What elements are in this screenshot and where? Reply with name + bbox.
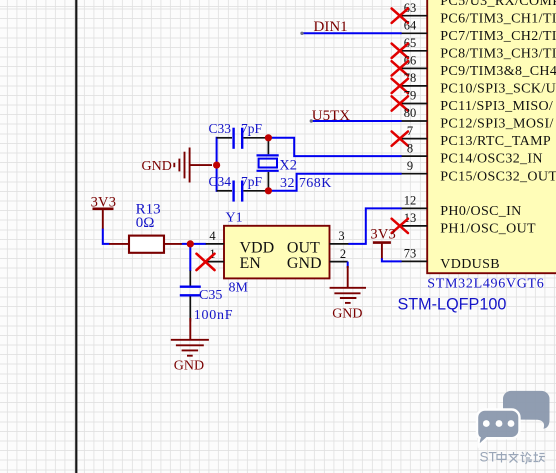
svg-text:GND: GND — [174, 359, 204, 374]
svg-text:PC6/TIM3_CH1/TI: PC6/TIM3_CH1/TI — [440, 11, 556, 26]
wire R13 to Y1 VDD — [182, 243, 206, 245]
svg-text:PH0/OSC_IN: PH0/OSC_IN — [440, 204, 521, 219]
svg-text:32.768K: 32.768K — [280, 176, 332, 191]
Y1 pin 1 EN — [204, 247, 224, 262]
svg-text:GND: GND — [142, 159, 172, 174]
sheet border line — [75, 0, 77, 473]
svg-text:GND: GND — [332, 307, 362, 322]
svg-text:PC15/OSC32_OUT: PC15/OSC32_OUT — [440, 169, 556, 184]
junction R13 node — [187, 240, 194, 247]
text STM32L496VGT6 — [427, 276, 544, 291]
svg-text:65: 65 — [404, 36, 417, 50]
resistor R13 — [109, 202, 182, 253]
wire crystal top to pin 8 — [268, 138, 401, 156]
wire DIN1 to pin 64 — [300, 32, 401, 35]
pin 80 PC12/SPI3_MOSI/ — [401, 106, 554, 131]
pin PC5 PC5/U3_RX/COMP — [440, 0, 556, 9]
svg-text:PC7/TIM3_CH2/TI: PC7/TIM3_CH2/TI — [440, 29, 556, 44]
power port GND left of crystal — [142, 148, 213, 183]
svg-text:PH1/OSC_OUT: PH1/OSC_OUT — [440, 222, 536, 237]
net label DIN1 — [314, 19, 348, 35]
oscillator module Y1 — [224, 211, 330, 279]
pin 65 PC8/TIM3_CH3/TI — [401, 36, 556, 61]
svg-text:ST: ST — [480, 450, 497, 465]
svg-text:3V3: 3V3 — [370, 227, 396, 243]
wire C33/C34 left vertical — [216, 137, 218, 192]
svg-text:PC11/SPI3_MISO/: PC11/SPI3_MISO/ — [440, 99, 553, 114]
svg-text:78: 78 — [404, 71, 417, 85]
no-ERC cross on pin 7 — [392, 131, 408, 145]
svg-text:9: 9 — [407, 159, 413, 173]
power port GND below Y1 — [330, 266, 366, 322]
svg-text:2: 2 — [340, 247, 346, 261]
svg-text:64: 64 — [404, 19, 417, 33]
wire Y1 OUT to pin 12 — [348, 208, 401, 244]
svg-text:PC14/OSC32_IN: PC14/OSC32_IN — [440, 152, 543, 167]
svg-text:PC8/TIM3_CH3/TI: PC8/TIM3_CH3/TI — [440, 46, 556, 61]
svg-text:C34: C34 — [209, 174, 232, 189]
svg-text:63: 63 — [404, 1, 417, 15]
wire 3V3 to pin 73 — [382, 258, 402, 261]
svg-text:Y1: Y1 — [226, 211, 243, 226]
svg-text:7pF: 7pF — [241, 174, 263, 189]
no-ERC cross on pin 13 — [392, 219, 408, 233]
svg-text:C33: C33 — [209, 121, 232, 136]
junction crystal top node — [265, 134, 272, 141]
svg-text:66: 66 — [404, 54, 417, 68]
pin 64 PC7/TIM3_CH2/TI — [401, 19, 556, 44]
capacitor C35 — [180, 271, 233, 323]
capacitor C34 — [209, 174, 269, 202]
pin 73 VDDUSB — [401, 247, 500, 272]
pin 79 PC11/SPI3_MISO/ — [401, 89, 554, 114]
svg-text:PC13/RTC_TAMP: PC13/RTC_TAMP — [440, 134, 551, 149]
pin 8 PC14/OSC32_IN — [401, 141, 543, 166]
svg-text:C35: C35 — [199, 288, 222, 303]
wire node down to C35 — [189, 244, 191, 271]
svg-text:0Ω: 0Ω — [136, 215, 155, 231]
svg-text:STM32L496VGT6: STM32L496VGT6 — [427, 276, 544, 291]
power port 3V3 left — [91, 194, 117, 229]
svg-text:12: 12 — [404, 194, 417, 208]
pin 13 PH1/OSC_OUT — [401, 211, 536, 236]
Y1 pin 2 GND — [330, 247, 348, 262]
pin 7 PC13/RTC_TAMP — [401, 124, 551, 149]
watermark text ST + CJK forum name — [480, 450, 546, 465]
pin 66 PC9/TIM3&8_CH4/ — [401, 54, 556, 79]
svg-text:3: 3 — [338, 229, 344, 243]
pin 12 PH0/OSC_IN — [401, 194, 522, 219]
svg-text:4: 4 — [209, 229, 216, 243]
svg-text:PC5/U3_RX/COMP: PC5/U3_RX/COMP — [440, 0, 556, 9]
svg-text:STM-LQFP100: STM-LQFP100 — [398, 295, 507, 313]
svg-text:EN: EN — [240, 255, 262, 272]
crystal X2 — [257, 138, 298, 191]
watermark chat bubbles logo — [477, 391, 550, 446]
svg-text:PC12/SPI3_MOSI/: PC12/SPI3_MOSI/ — [440, 117, 553, 132]
svg-text:7pF: 7pF — [241, 121, 263, 136]
no-ERC cross on pin 63 — [392, 9, 408, 23]
net label U5TX — [312, 108, 350, 124]
svg-text:VDDUSB: VDDUSB — [440, 257, 500, 272]
pin 78 PC10/SPI3_SCK/U — [401, 71, 556, 96]
IC U1 STM32L496VGT6 body — [427, 0, 556, 273]
no-ERC cross on Y1 pin 1 — [197, 254, 215, 270]
wire U5TX to pin 80 — [310, 119, 402, 122]
power port GND below C35 — [171, 318, 209, 374]
no-ERC cross on pin 79 — [392, 96, 408, 110]
pin 63 PC6/TIM3_CH1/TI — [401, 1, 556, 26]
no-ERC cross on pin 78 — [392, 79, 408, 93]
svg-text:PC9/TIM3&8_CH4/: PC9/TIM3&8_CH4/ — [440, 64, 556, 79]
power port 3V3 right — [370, 227, 396, 259]
no-ERC cross on pin 65 — [392, 44, 408, 58]
text STM-LQFP100 — [398, 295, 507, 313]
svg-text:8: 8 — [407, 141, 413, 155]
Y1 pin 4 VDD — [206, 229, 224, 244]
svg-text:GND: GND — [287, 255, 322, 272]
no-ERC cross on pin 66 — [392, 61, 408, 75]
wire crystal bottom to pin 9 — [268, 174, 401, 191]
svg-text:X2: X2 — [279, 157, 297, 173]
wire Y1 GND pin down — [347, 262, 349, 268]
svg-text:8M: 8M — [229, 281, 249, 296]
value 32.768K — [280, 176, 332, 191]
junction GND-caps node — [213, 162, 220, 169]
svg-text:79: 79 — [404, 89, 417, 103]
Y1 pin 3 OUT — [330, 229, 350, 244]
value 8M — [229, 281, 249, 296]
wire 3V3 to R13 — [103, 229, 110, 244]
junction crystal bottom node — [265, 187, 272, 194]
capacitor C33 — [209, 121, 269, 149]
svg-text:73: 73 — [404, 247, 417, 261]
svg-text:80: 80 — [404, 106, 417, 120]
svg-text:100nF: 100nF — [194, 308, 234, 323]
svg-text:13: 13 — [404, 211, 417, 225]
pin 9 PC15/OSC32_OUT — [401, 159, 556, 184]
svg-text:PC10/SPI3_SCK/U: PC10/SPI3_SCK/U — [440, 82, 556, 97]
